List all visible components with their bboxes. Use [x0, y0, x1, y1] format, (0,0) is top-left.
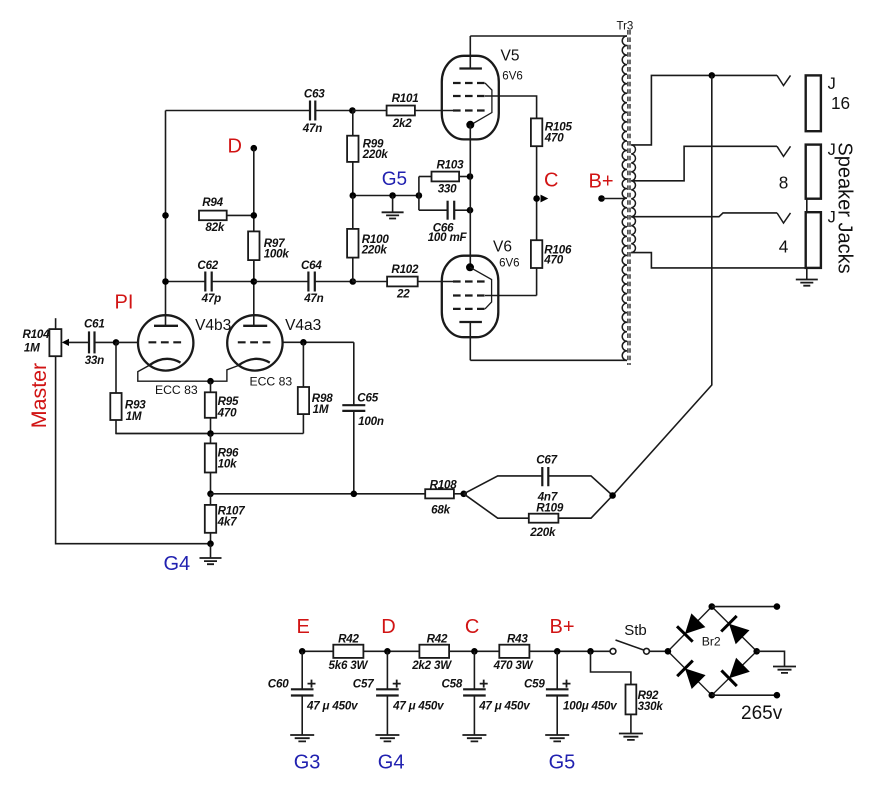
svg-text:R102: R102 — [391, 263, 419, 276]
svg-text:R94: R94 — [202, 196, 223, 209]
capacitor C62 — [197, 259, 253, 305]
jack tip contact 16 — [777, 75, 791, 85]
svg-text:Br2: Br2 — [702, 634, 721, 648]
wire R106 to V6 screen — [485, 295, 537, 297]
wire 4 ohm tap — [631, 213, 777, 217]
svg-text:330: 330 — [438, 182, 457, 195]
resistor R107 — [205, 494, 245, 544]
svg-text:R109: R109 — [536, 502, 564, 515]
resistor R103 — [419, 159, 470, 196]
svg-text:C59: C59 — [524, 678, 545, 691]
ground below R92 — [619, 734, 643, 740]
node C terminal — [533, 195, 540, 202]
svg-text:22: 22 — [396, 287, 410, 300]
junction C61/R93/grid — [113, 339, 120, 346]
svg-text:Stb: Stb — [624, 622, 647, 639]
svg-text:Master: Master — [27, 363, 51, 428]
wire C67 right — [548, 476, 612, 496]
capacitor C65 — [342, 342, 384, 494]
svg-text:D: D — [228, 135, 242, 157]
svg-text:Tr3: Tr3 — [617, 21, 634, 33]
wire R109 right — [558, 496, 612, 519]
junction R107/ground — [207, 540, 214, 547]
resistor R96 — [205, 434, 239, 494]
svg-text:8: 8 — [779, 173, 789, 193]
ground below C57 — [375, 735, 399, 741]
bridge rectifier Br2 — [668, 607, 757, 696]
capacitor C59 — [524, 651, 617, 735]
speaker jack J 4 — [779, 208, 836, 268]
svg-text:100μ 450v: 100μ 450v — [563, 700, 617, 713]
junction feedback tap — [709, 72, 716, 79]
junction G5 ground — [389, 192, 396, 199]
svg-text:265v: 265v — [741, 703, 783, 724]
junction G5 row left — [350, 192, 357, 199]
svg-text:16: 16 — [831, 93, 850, 113]
node E — [299, 648, 306, 655]
svg-text:V6: V6 — [493, 239, 512, 256]
resistor R42 (D-C) — [411, 633, 499, 673]
svg-text:C67: C67 — [536, 453, 557, 466]
jack tip contact 8 — [777, 146, 791, 156]
svg-text:B+: B+ — [550, 616, 575, 638]
svg-text:33n: 33n — [85, 354, 104, 367]
capacitor C58 — [442, 651, 531, 735]
capacitor C61 — [84, 318, 116, 367]
svg-text:100k: 100k — [264, 247, 290, 260]
node C arrow — [541, 195, 549, 203]
svg-text:4k7: 4k7 — [217, 516, 237, 529]
junction R94 left — [162, 212, 169, 219]
resistor R100 — [347, 196, 389, 282]
junction R96/R107/feedback — [207, 491, 214, 498]
svg-text:V5: V5 — [501, 48, 520, 65]
ground G4 — [200, 544, 222, 565]
junction R95/R96 — [207, 430, 214, 437]
svg-text:47 μ 450v: 47 μ 450v — [478, 700, 530, 713]
wire V5 cathode to V6 cathode rail — [469, 125, 471, 267]
svg-text:B+: B+ — [589, 171, 614, 193]
svg-text:R43: R43 — [507, 633, 528, 646]
svg-text:V4a3: V4a3 — [285, 317, 321, 334]
svg-text:47p: 47p — [201, 292, 221, 305]
potentiometer R104 Master — [23, 318, 211, 544]
junction C66 right — [467, 207, 474, 214]
svg-text:100 mF: 100 mF — [428, 231, 468, 244]
switch Stb — [610, 622, 649, 654]
svg-text:V4b3: V4b3 — [195, 317, 231, 334]
svg-text:82k: 82k — [205, 221, 224, 234]
svg-text:470: 470 — [543, 253, 563, 266]
svg-text:ECC 83: ECC 83 — [155, 383, 198, 397]
junction R92/switch — [587, 648, 594, 655]
svg-text:10k: 10k — [218, 458, 237, 471]
capacitor C63 — [302, 88, 353, 135]
resistor R105 — [531, 118, 573, 240]
node B+ terminal — [598, 195, 605, 202]
svg-text:C: C — [544, 169, 558, 191]
svg-text:100n: 100n — [358, 415, 384, 428]
jack tip contact 4 — [777, 213, 791, 223]
wire G5 row — [353, 195, 419, 197]
wire feedback line — [613, 75, 712, 495]
svg-text:C65: C65 — [357, 392, 378, 405]
svg-text:470: 470 — [544, 131, 564, 144]
wire V5 screen to R105 — [485, 96, 537, 118]
wire to V4b3 grid — [116, 341, 138, 343]
resistor R43 — [493, 633, 611, 673]
svg-text:47 μ 450v: 47 μ 450v — [392, 700, 444, 713]
resistor R94 — [199, 196, 254, 234]
ground below C58 — [462, 735, 486, 741]
svg-text:5k6 3W: 5k6 3W — [329, 659, 369, 672]
svg-text:2k2 3W: 2k2 3W — [411, 659, 452, 672]
junction R98 top — [300, 339, 307, 346]
wire cathode return rail — [116, 433, 303, 435]
svg-text:D: D — [381, 616, 395, 638]
svg-text:1M: 1M — [24, 342, 40, 355]
svg-text:R103: R103 — [437, 159, 465, 172]
junction feedback right — [609, 492, 616, 499]
svg-text:R42: R42 — [427, 633, 448, 646]
junction C65 bottom — [351, 491, 358, 498]
wire bridge minus to ground — [757, 651, 785, 666]
junction G5 row right — [416, 192, 423, 199]
svg-text:68k: 68k — [431, 504, 450, 517]
wire secondary common — [631, 253, 806, 268]
svg-text:PI: PI — [115, 292, 134, 314]
transformer Tr3 primary — [622, 36, 627, 360]
wire jack sleeves link — [806, 199, 808, 213]
svg-text:4: 4 — [779, 237, 789, 257]
wire rail E — [302, 650, 333, 652]
junction grid row left — [162, 278, 169, 285]
svg-text:C63: C63 — [304, 88, 325, 101]
wire V4a3 grid to R98/C65 — [283, 341, 354, 343]
svg-text:220k: 220k — [529, 526, 556, 539]
svg-text:Speaker Jacks: Speaker Jacks — [834, 142, 856, 273]
wire V5 plate to transformer top — [470, 35, 627, 37]
svg-text:470: 470 — [217, 407, 237, 420]
svg-text:R108: R108 — [430, 479, 458, 492]
svg-text:2k2: 2k2 — [392, 117, 412, 130]
wire 8 ohm tap — [631, 146, 777, 181]
svg-text:47 μ 450v: 47 μ 450v — [306, 700, 358, 713]
resistor R109 — [529, 502, 591, 539]
wire feedback to R108 — [211, 493, 426, 495]
resistor R93 — [110, 342, 210, 433]
svg-text:6V6: 6V6 — [502, 71, 522, 83]
junction bridge left (+) — [665, 648, 672, 655]
resistor R42 (E-D) — [329, 633, 420, 673]
svg-text:G5: G5 — [382, 169, 407, 190]
wire R103/C66 left leg — [418, 177, 420, 211]
svg-text:47n: 47n — [303, 292, 323, 305]
resistor R92 — [591, 651, 664, 733]
node B+ psu — [554, 648, 561, 655]
capacitor C66 — [419, 201, 470, 244]
wire AC input top — [712, 606, 777, 608]
resistor R98 — [298, 342, 333, 433]
svg-text:C62: C62 — [197, 259, 218, 272]
terminal AC top — [774, 603, 781, 610]
resistor R95 — [205, 381, 239, 433]
ground below C60 — [290, 735, 314, 741]
junction R108 right — [460, 491, 467, 498]
triode V4a3 ECC83 — [211, 315, 322, 388]
capacitor C57 — [353, 651, 444, 735]
node C psu — [471, 648, 478, 655]
wire C67 left — [464, 476, 543, 494]
svg-text:C60: C60 — [268, 678, 289, 691]
transformer Tr3 core — [628, 30, 630, 365]
junction cathodes — [207, 378, 214, 385]
node D psu — [384, 648, 391, 655]
svg-text:C57: C57 — [353, 678, 374, 691]
speaker jack J 16 — [806, 75, 850, 131]
wire node D / V4a3 plate riser — [253, 148, 255, 326]
triode V4b3 ECC83 — [138, 315, 232, 397]
svg-text:R104: R104 — [23, 328, 51, 341]
wire V4b3 plate to C63 — [166, 110, 311, 112]
svg-text:220k: 220k — [361, 243, 388, 256]
svg-text:C: C — [465, 616, 479, 638]
svg-text:330k: 330k — [638, 700, 664, 713]
junction bridge top AC — [709, 603, 716, 610]
wire switch to bridge — [649, 650, 668, 652]
wire B+ to transformer tap — [602, 198, 625, 200]
svg-text:470 3W: 470 3W — [493, 659, 534, 672]
junction bridge right (-) — [753, 648, 760, 655]
svg-text:1M: 1M — [313, 403, 329, 416]
wire 16 ohm output — [631, 75, 777, 144]
svg-text:G3: G3 — [294, 752, 321, 774]
transformer Tr3 secondary — [631, 145, 635, 253]
capacitor C64 — [254, 259, 353, 305]
node C63/R101/R99 — [349, 107, 356, 114]
ground G5 — [382, 196, 404, 219]
svg-text:220k: 220k — [362, 148, 389, 161]
resistor R102 — [353, 263, 454, 301]
wire grid row to C62 — [166, 281, 206, 283]
svg-text:J: J — [828, 75, 836, 93]
tube V5 6V6 — [442, 36, 523, 139]
svg-text:C64: C64 — [301, 259, 322, 272]
svg-text:E: E — [297, 616, 310, 638]
wire R109 left — [464, 494, 529, 518]
resistor R108 — [425, 479, 464, 517]
svg-text:C58: C58 — [442, 678, 463, 691]
terminal AC bottom — [774, 692, 781, 699]
resistor R101 — [352, 92, 454, 130]
capacitor C60 — [268, 651, 358, 735]
svg-text:R101: R101 — [392, 92, 419, 105]
svg-text:6V6: 6V6 — [499, 258, 519, 270]
svg-text:1M: 1M — [126, 410, 142, 423]
wire V6 plate to transformer bottom — [470, 359, 627, 361]
ground speaker jacks — [796, 268, 818, 286]
svg-text:G4: G4 — [378, 752, 405, 774]
capacitor C67 — [536, 453, 558, 503]
speaker jack J 8 — [779, 141, 836, 199]
svg-text:G4: G4 — [164, 553, 191, 575]
ground bridge — [773, 667, 796, 673]
svg-text:47n: 47n — [302, 122, 322, 135]
wire AC input bottom — [712, 694, 777, 696]
resistor R97 — [248, 231, 289, 281]
junction R103 right — [467, 173, 474, 180]
node D terminal — [251, 145, 258, 152]
junction bridge bottom AC — [709, 692, 716, 699]
junction R94 right — [251, 212, 258, 219]
svg-text:C61: C61 — [84, 318, 105, 331]
tube V6 6V6 — [442, 239, 520, 361]
svg-text:R42: R42 — [338, 633, 359, 646]
resistor R99 — [347, 111, 388, 196]
junction C64/R100/R102 — [350, 278, 357, 285]
svg-text:G5: G5 — [549, 752, 576, 774]
svg-text:ECC 83: ECC 83 — [250, 375, 293, 389]
wire V4b3 plate riser — [165, 111, 167, 326]
resistor R106 — [531, 240, 572, 295]
junction C62/C64 — [251, 278, 258, 285]
ground below C59 — [545, 735, 569, 741]
